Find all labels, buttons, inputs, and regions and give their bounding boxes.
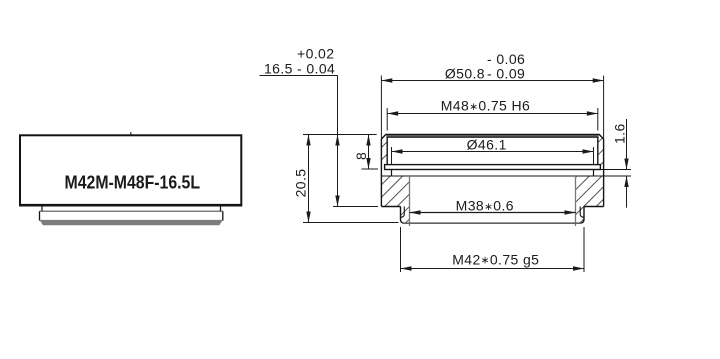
svg-text:16.5: 16.5 [264, 61, 293, 77]
svg-text:Ø50.8: Ø50.8 [445, 65, 485, 81]
svg-text:M42∗0.75 g5: M42∗0.75 g5 [452, 251, 539, 267]
svg-text:M42M-M48F-16.5L: M42M-M48F-16.5L [65, 171, 201, 192]
svg-text:- 0.09: - 0.09 [487, 65, 525, 81]
svg-text:M38∗0.6: M38∗0.6 [456, 197, 514, 213]
svg-text:8: 8 [353, 152, 369, 160]
svg-text:- 0.04: - 0.04 [297, 61, 335, 77]
svg-text:+0.02: +0.02 [297, 45, 334, 61]
svg-text:1.6: 1.6 [611, 123, 627, 144]
svg-text:Ø46.1: Ø46.1 [467, 137, 507, 153]
svg-text:M48∗0.75 H6: M48∗0.75 H6 [441, 98, 530, 114]
svg-text:20.5: 20.5 [293, 169, 309, 198]
